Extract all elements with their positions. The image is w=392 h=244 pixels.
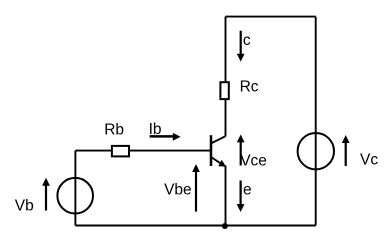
junction node (emitter / bottom rail) [222, 223, 228, 229]
arrow Vb [42, 178, 50, 211]
arrow Vc [342, 135, 350, 166]
transistor Q1 (NPN) [211, 135, 226, 166]
wire emitter vertical [225, 165, 227, 225]
current arrow Ie [237, 181, 245, 213]
wire top [226, 16, 316, 18]
current arrow Ic [237, 31, 245, 62]
svg-text:Vce: Vce [240, 152, 267, 169]
wire collector vertical [225, 17, 227, 137]
svg-text:Vbe: Vbe [164, 182, 192, 199]
svg-text:Rc: Rc [240, 78, 259, 95]
resistor Rc [220, 82, 228, 99]
svg-text:Ie: Ie [239, 182, 252, 199]
arrow Vbe [192, 164, 200, 212]
svg-text:Rb: Rb [104, 121, 124, 138]
voltage source Vb [57, 178, 93, 214]
svg-text:Ib: Ib [149, 121, 162, 138]
voltage source Vc [298, 133, 334, 169]
wire right vertical [315, 17, 317, 226]
svg-text:Ic: Ic [239, 32, 251, 49]
wire base [75, 150, 210, 152]
wire bottom [75, 225, 315, 227]
resistor Rb [112, 146, 129, 157]
current arrow Ib [150, 133, 181, 141]
arrow Vce [237, 135, 245, 166]
wire left vertical (Vb branch) [74, 151, 76, 226]
svg-text:Vb: Vb [15, 197, 34, 214]
svg-text:Vc: Vc [360, 151, 378, 168]
